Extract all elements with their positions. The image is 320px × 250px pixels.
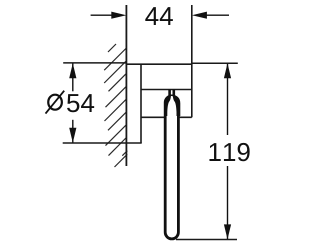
body bottom line [141, 116, 192, 118]
dia-54 label digits [67, 94, 94, 112]
bottom extension line of 119 dim [176, 239, 237, 241]
body internal line [141, 89, 192, 91]
pivot bell white slot [167, 96, 176, 117]
dim 44 left arrowhead [111, 12, 126, 19]
dia-54 upper arrowhead [69, 63, 76, 78]
dim 119 top extension line [192, 62, 238, 64]
dia-54 dim line upper segment [72, 64, 74, 92]
wall hatching [104, 44, 127, 167]
dim 119 upper arrowhead [224, 63, 231, 78]
dim 44 left arrow tail [91, 14, 112, 16]
dim 119 line lower segment [227, 166, 229, 239]
pivot neck left stub [168, 90, 171, 97]
escutcheon plate front edge [140, 64, 142, 143]
wall face line (also left extension of 44 dim) [125, 5, 127, 166]
pivot bell (thick top of loop) [164, 95, 180, 116]
dim 119 label [209, 143, 249, 161]
dim 44 right arrow tail [206, 14, 229, 16]
dia-54 top extension line [63, 62, 126, 64]
dia-54 dim line lower segment [72, 120, 74, 143]
dim 119 line upper segment [227, 64, 229, 135]
dim 44 right arrowhead [192, 12, 207, 19]
bottom extension line of dia-54 (plate bottom edge) [63, 142, 142, 144]
loop bar (capsule, side view of hanging ring) [165, 96, 178, 239]
body right edge (also right extension of 44 dim) [191, 5, 193, 117]
dim 119 lower arrowhead [224, 224, 231, 239]
dia-54 lower arrowhead [69, 128, 76, 143]
dia-54 label circle-slash symbol [46, 91, 65, 114]
body top edge [126, 63, 191, 65]
dim 44 label [145, 7, 173, 25]
pivot neck right stub [173, 90, 176, 97]
